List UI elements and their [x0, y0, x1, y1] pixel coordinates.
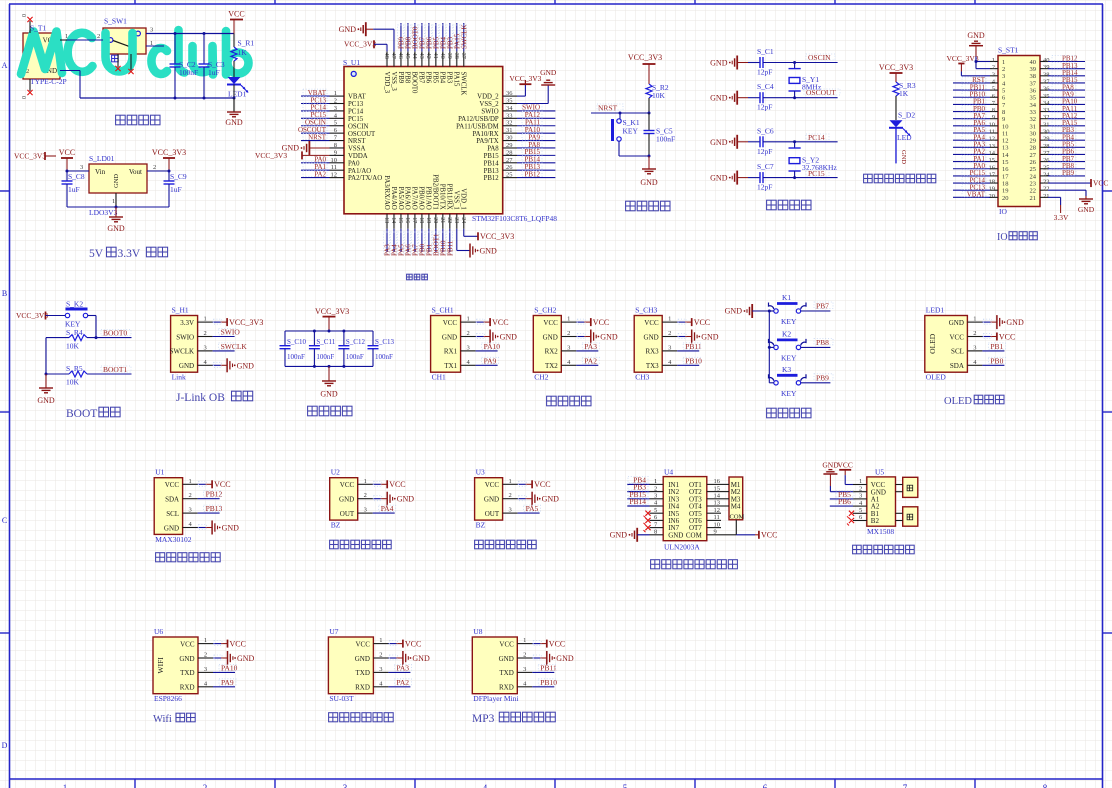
svg-text:S_R5: S_R5 — [66, 364, 83, 373]
designator U4 — [664, 468, 673, 477]
svg-text:29: 29 — [1043, 136, 1050, 143]
IC U5 MX1508 body — [867, 477, 896, 526]
S_ST1 pin 20 — [953, 191, 998, 200]
svg-text:PB8: PB8 — [404, 72, 411, 84]
MCU pin 19 — [425, 214, 434, 256]
label DFPlayer Mini — [473, 694, 518, 703]
svg-text:17: 17 — [1002, 173, 1009, 180]
capacitor S_C3 — [199, 34, 225, 99]
svg-text:OSCOUT: OSCOUT — [806, 88, 836, 97]
U1 pin 4 GND — [183, 521, 240, 535]
svg-text:VCC: VCC — [228, 10, 244, 19]
crystal S_Y2 — [789, 142, 838, 178]
designator U1 — [155, 468, 164, 477]
power VCC_3V3 header — [947, 54, 991, 76]
svg-text:GND: GND — [640, 178, 658, 187]
S_CH3 pin 1 VCC — [662, 316, 710, 327]
module U3 body — [475, 478, 503, 520]
connector S_T1 TYPE-C-2P body — [23, 33, 60, 79]
U5 pin 4 — [853, 500, 867, 507]
svg-text:VCC: VCC — [405, 639, 421, 648]
wire boot bus — [45, 338, 48, 376]
svg-text:VCC_3V3: VCC_3V3 — [14, 152, 46, 161]
svg-text:22: 22 — [1043, 186, 1050, 193]
svg-text:15: 15 — [989, 157, 996, 164]
label MAX30102 — [155, 535, 192, 544]
svg-text:23: 23 — [1030, 180, 1037, 187]
svg-text:U4: U4 — [664, 468, 673, 477]
svg-text:11: 11 — [1002, 130, 1008, 137]
capacitor S_C6 — [710, 126, 796, 156]
label Link — [172, 373, 186, 382]
svg-text:16: 16 — [404, 217, 410, 223]
svg-text:PA0: PA0 — [348, 160, 360, 167]
power VCC_3V3 MCU VDDA — [255, 151, 330, 160]
svg-text:9: 9 — [1002, 116, 1005, 123]
svg-text:VCC_3V3: VCC_3V3 — [229, 318, 263, 327]
svg-text:18: 18 — [1002, 180, 1009, 187]
svg-text:GND: GND — [600, 333, 618, 342]
label PB8 — [801, 338, 833, 348]
S_CH1 pin 3 PA10 — [461, 342, 501, 352]
svg-text:ESP8266: ESP8266 — [154, 694, 182, 703]
S_ST1 pin 30 — [1040, 126, 1085, 135]
ground filter — [320, 366, 338, 398]
svg-text:TYPE-C-2P: TYPE-C-2P — [30, 77, 67, 86]
svg-text:15: 15 — [714, 485, 721, 492]
svg-text:PB8: PB8 — [816, 338, 829, 347]
svg-text:GND: GND — [320, 390, 338, 399]
capacitor S_C7 — [710, 162, 796, 192]
MCU pin 35 — [503, 98, 517, 105]
module S_H1 body — [170, 316, 198, 373]
MCU pin 42 — [425, 23, 434, 67]
svg-text:SCL: SCL — [166, 510, 179, 518]
S_ST1 pin 1 — [990, 57, 998, 64]
MCU pin 5 — [301, 119, 344, 127]
svg-text:28: 28 — [1043, 143, 1050, 150]
U1 pin 2 PB12 — [183, 490, 223, 500]
svg-text:S_H1: S_H1 — [172, 306, 189, 315]
svg-text:24: 24 — [460, 217, 466, 223]
U4 pin 11 — [707, 514, 721, 521]
svg-text:1: 1 — [859, 478, 862, 485]
S_ST1 pin 16 — [953, 162, 998, 171]
svg-text:2: 2 — [567, 330, 570, 337]
svg-text:RXD: RXD — [499, 684, 514, 692]
caption IR module 2 — [475, 540, 537, 549]
wire OSCIN — [795, 62, 838, 64]
caption key circuit — [767, 408, 811, 418]
svg-text:S_R1: S_R1 — [238, 39, 255, 48]
svg-text:BOOT0: BOOT0 — [411, 72, 418, 95]
svg-text:11: 11 — [331, 164, 337, 171]
svg-text:S_C7: S_C7 — [757, 162, 774, 171]
module U7 body — [328, 637, 373, 694]
svg-text:44: 44 — [411, 53, 417, 59]
MCU pin 25 — [503, 170, 556, 178]
svg-text:36: 36 — [506, 90, 513, 97]
svg-text:34: 34 — [506, 105, 513, 112]
U3 pin 3 PA5 — [503, 504, 541, 513]
svg-text:45: 45 — [404, 53, 410, 59]
svg-text:PB7: PB7 — [418, 72, 425, 84]
svg-text:GND: GND — [107, 224, 125, 233]
svg-text:PA1/AO: PA1/AO — [348, 168, 371, 175]
MCU pin 32 — [503, 119, 556, 127]
S_ST1 pin 25 — [1040, 162, 1085, 171]
svg-text:VCC_3V3: VCC_3V3 — [947, 54, 979, 63]
svg-text:GND: GND — [484, 496, 499, 504]
MCU pin 21 — [439, 214, 448, 256]
svg-text:LDO3V3: LDO3V3 — [89, 208, 118, 217]
power VCC_3V3 MCU VDD_3 — [344, 40, 387, 52]
svg-text:5: 5 — [654, 507, 657, 514]
svg-text:2: 2 — [508, 492, 511, 499]
svg-text:S_CH2: S_CH2 — [534, 306, 556, 315]
svg-text:Vin: Vin — [95, 168, 106, 176]
MCU pin 41 — [432, 23, 441, 67]
svg-text:VCC_3V3: VCC_3V3 — [152, 148, 186, 157]
svg-text:GND: GND — [543, 333, 558, 341]
U4 pin 4 — [627, 497, 663, 507]
module U1 body — [154, 478, 182, 535]
svg-text:GND: GND — [164, 524, 179, 532]
svg-text:PB13: PB13 — [484, 168, 500, 175]
svg-text:S_LD01: S_LD01 — [89, 154, 115, 163]
svg-text:S_SW1: S_SW1 — [104, 17, 127, 26]
S_H1 pin 2 SWIO — [198, 328, 241, 338]
svg-text:GND: GND — [949, 319, 964, 327]
svg-text:PB9: PB9 — [1062, 169, 1075, 177]
svg-text:29: 29 — [506, 142, 513, 149]
MCU pin 24 — [460, 214, 466, 229]
svg-text:32: 32 — [1043, 114, 1050, 121]
svg-text:21: 21 — [1030, 195, 1037, 202]
power VCC_3V3 reset — [628, 53, 662, 84]
svg-text:2: 2 — [973, 330, 976, 337]
svg-text:3.3V: 3.3V — [180, 319, 194, 327]
svg-text:IO: IO — [997, 232, 1008, 243]
module S_CH2 body — [533, 316, 561, 373]
S_CH1 pin 4 PA9 — [461, 356, 499, 366]
caption IO expansion — [997, 232, 1037, 243]
svg-text:VCC: VCC — [214, 480, 230, 489]
svg-text:20: 20 — [1002, 195, 1009, 202]
svg-text:9: 9 — [992, 114, 995, 121]
svg-text:U7: U7 — [329, 627, 338, 636]
svg-text:6: 6 — [763, 783, 768, 788]
svg-text:VCC_3V3: VCC_3V3 — [344, 40, 376, 49]
S_ST1 pin 17 — [953, 169, 998, 178]
svg-text:GND: GND — [499, 655, 514, 663]
svg-text:1uF: 1uF — [170, 185, 182, 194]
MCU pin 44 — [411, 23, 420, 67]
svg-text:NRST: NRST — [598, 104, 618, 113]
svg-text:1: 1 — [1002, 59, 1005, 66]
U5 pin 1 — [853, 478, 867, 485]
svg-text:3: 3 — [567, 344, 570, 351]
S_ST1 pin 40 — [1040, 55, 1085, 64]
svg-text:5: 5 — [859, 507, 862, 514]
designator S_CH3 — [635, 306, 657, 315]
svg-text:11: 11 — [989, 129, 995, 136]
S_ST1 pin 34 — [1040, 98, 1085, 107]
svg-text:PB12: PB12 — [524, 170, 540, 178]
svg-text:5: 5 — [1002, 88, 1005, 95]
U2 pin 3 PA4 — [358, 504, 396, 513]
svg-text:KEY: KEY — [781, 353, 797, 362]
svg-text:23: 23 — [453, 217, 459, 223]
MCU pin 31 — [503, 126, 556, 134]
svg-text:S_C1: S_C1 — [757, 47, 774, 56]
svg-text:SWIO: SWIO — [176, 333, 194, 341]
S_ST1 pin 19 — [953, 183, 998, 192]
svg-text:5: 5 — [623, 783, 628, 788]
U7 pin 1 VCC — [373, 637, 421, 648]
MCU pin 18 — [418, 214, 427, 256]
svg-text:VCC_3V3: VCC_3V3 — [879, 63, 913, 72]
svg-text:1K: 1K — [238, 48, 248, 57]
ground MCU VSS_3 — [339, 22, 394, 51]
svg-text:14: 14 — [989, 150, 996, 157]
svg-text:18: 18 — [989, 179, 996, 186]
svg-text:OUT: OUT — [340, 510, 355, 518]
caption J-Link OB — [176, 391, 253, 404]
svg-text:VCC_3V3: VCC_3V3 — [315, 307, 349, 316]
svg-text:VCC: VCC — [837, 461, 852, 470]
MCU pin 3 — [301, 104, 344, 112]
svg-text:35: 35 — [506, 98, 513, 105]
svg-text:S_C4: S_C4 — [757, 82, 774, 91]
label NRST — [597, 104, 623, 113]
S_CH2 pin 3 PA3 — [561, 342, 599, 352]
svg-text:GND: GND — [339, 496, 354, 504]
svg-text:GND: GND — [556, 654, 574, 663]
S_ST1 pin 3 — [990, 71, 998, 78]
svg-text:35: 35 — [1043, 93, 1050, 100]
capacitor S_C12 — [338, 331, 365, 366]
MCU pin 4 — [301, 111, 344, 119]
svg-text:43: 43 — [418, 53, 424, 59]
svg-text:3: 3 — [466, 344, 469, 351]
svg-text:GND: GND — [237, 654, 255, 663]
svg-text:19: 19 — [425, 217, 431, 223]
svg-text:VCC_3V3: VCC_3V3 — [480, 232, 514, 241]
caption serial circuit — [547, 396, 591, 406]
svg-text:12pF: 12pF — [757, 68, 772, 77]
svg-text:BOOT: BOOT — [66, 408, 97, 420]
module S_CH3 body — [634, 316, 662, 373]
svg-text:PA15: PA15 — [453, 72, 460, 87]
svg-text:13: 13 — [989, 143, 996, 150]
svg-text:2: 2 — [364, 492, 367, 499]
svg-text:GND: GND — [1006, 318, 1024, 327]
label CH3 — [635, 373, 649, 382]
S_H1 pin 4 GND — [198, 358, 255, 372]
designator U7 — [329, 627, 338, 636]
svg-text:PA10: PA10 — [484, 342, 501, 351]
caption reset circuit — [626, 201, 670, 211]
U5 pin 5 — [847, 507, 867, 518]
svg-text:U6: U6 — [154, 627, 163, 636]
svg-text:100nF: 100nF — [656, 135, 675, 144]
svg-text:12pF: 12pF — [757, 147, 772, 156]
svg-text:VSS_2: VSS_2 — [479, 101, 499, 108]
S_ST1 pin 12 — [953, 133, 998, 142]
MCU pin 1 — [301, 89, 344, 97]
wire NRST — [591, 112, 651, 115]
svg-text:10: 10 — [331, 157, 338, 164]
label SW1 switch char — [112, 55, 119, 62]
svg-text:2: 2 — [97, 33, 100, 40]
svg-text:KEY: KEY — [781, 317, 797, 326]
caption BOOT circuit — [66, 407, 120, 420]
svg-text:VCC: VCC — [355, 640, 370, 648]
wire SW1 pin1 stub — [146, 40, 164, 47]
svg-text:VCC: VCC — [694, 318, 710, 327]
S_ST1 pin 27 — [1040, 148, 1085, 157]
svg-text:GND: GND — [500, 333, 518, 342]
label PB9 — [801, 373, 833, 383]
S_ST1 pin 31 — [1040, 119, 1085, 128]
svg-text:GND: GND — [237, 361, 255, 370]
svg-text:2: 2 — [203, 783, 208, 788]
module U2 body — [330, 478, 358, 520]
svg-text:PB12: PB12 — [484, 175, 500, 182]
svg-text:PB15: PB15 — [484, 153, 500, 160]
svg-text:100nF: 100nF — [346, 353, 364, 361]
module S_CH1 body — [431, 316, 461, 373]
svg-text:DFPlayer Mini: DFPlayer Mini — [473, 694, 518, 703]
capacitor S_C5 — [644, 113, 676, 158]
svg-text:GND: GND — [480, 247, 498, 256]
svg-text:PA6/AO: PA6/AO — [404, 187, 411, 210]
caption wifi module — [153, 713, 195, 725]
svg-text:46: 46 — [397, 53, 403, 59]
capacitor S_C4 — [710, 82, 796, 112]
U4 pin 15 — [707, 485, 721, 492]
label OLED — [926, 373, 947, 382]
svg-text:17: 17 — [411, 217, 417, 223]
MCU pin 17 — [411, 214, 420, 256]
svg-text:RX1: RX1 — [444, 348, 458, 356]
svg-text:VCC: VCC — [534, 480, 550, 489]
svg-text:VDD_2: VDD_2 — [477, 94, 499, 101]
svg-text:VCC: VCC — [492, 318, 508, 327]
svg-text:12: 12 — [989, 136, 996, 143]
svg-text:TXD: TXD — [356, 669, 370, 677]
svg-text:TXD: TXD — [499, 669, 513, 677]
svg-text:VCC_3V3: VCC_3V3 — [255, 151, 287, 160]
svg-text:GND: GND — [225, 118, 243, 127]
svg-text:STM32F103C8T6_LQFP48: STM32F103C8T6_LQFP48 — [472, 214, 557, 223]
svg-text:1: 1 — [65, 33, 68, 40]
svg-text:VSSA: VSSA — [348, 146, 365, 153]
caption dc motor circuit — [853, 545, 915, 554]
svg-text:VBAT: VBAT — [348, 94, 367, 101]
svg-text:COM: COM — [686, 531, 703, 539]
svg-text:41: 41 — [432, 53, 438, 59]
svg-text:20: 20 — [989, 193, 996, 200]
button S_K2 — [65, 300, 88, 329]
S_ST1 pin 28 — [1040, 141, 1085, 150]
MCU pin 43 — [418, 23, 427, 67]
ground header right — [1048, 190, 1095, 214]
label LDO3V3 — [89, 208, 118, 217]
svg-text:1: 1 — [63, 783, 68, 788]
wire T1 pin1 to SW1 — [60, 33, 103, 40]
wire keys bus — [768, 310, 771, 383]
svg-text:GND: GND — [37, 396, 55, 405]
wire PC15 — [795, 177, 838, 179]
svg-text:3: 3 — [973, 344, 976, 351]
svg-text:2: 2 — [523, 652, 526, 659]
label TYPE-C-2P — [30, 77, 67, 86]
svg-text:M4: M4 — [731, 503, 741, 511]
wire ldo pin3 — [66, 164, 90, 173]
svg-text:3: 3 — [80, 164, 83, 171]
svg-text:GND: GND — [644, 333, 659, 341]
caption power circuit — [116, 115, 160, 125]
svg-text:3: 3 — [150, 27, 153, 34]
svg-text:PB7: PB7 — [816, 302, 829, 311]
svg-text:VCC: VCC — [549, 639, 565, 648]
svg-text:S_K2: S_K2 — [66, 300, 83, 309]
button K1 — [769, 293, 807, 326]
svg-text:PB10: PB10 — [685, 356, 702, 365]
svg-text:PA7/AO: PA7/AO — [411, 187, 418, 210]
MCU pin 39 — [446, 23, 455, 67]
svg-text:2: 2 — [188, 492, 191, 499]
U6 pin 1 VCC — [198, 637, 246, 648]
svg-text:PC15: PC15 — [808, 169, 825, 178]
svg-text:39: 39 — [1030, 66, 1037, 73]
svg-text:VCC: VCC — [180, 640, 195, 648]
svg-text:PC13: PC13 — [348, 101, 364, 108]
svg-text:VCC: VCC — [761, 531, 777, 540]
U4 pin 7 — [644, 521, 664, 532]
svg-text:VCC_3V3: VCC_3V3 — [16, 311, 48, 320]
designator U3 — [476, 468, 485, 477]
svg-text:PB9: PB9 — [816, 373, 829, 382]
U4 pin 14 — [707, 493, 721, 500]
designator U6 — [154, 627, 163, 636]
svg-text:10: 10 — [1002, 123, 1009, 130]
svg-text:1: 1 — [668, 316, 671, 323]
svg-text:S_C10: S_C10 — [287, 338, 307, 346]
wire OSCOUT — [795, 97, 838, 99]
svg-text:PB11: PB11 — [685, 342, 702, 351]
button K2 — [769, 329, 807, 362]
S_ST1 pin 21 — [1040, 193, 1050, 200]
svg-text:1: 1 — [188, 478, 191, 485]
svg-text:5: 5 — [334, 120, 337, 127]
svg-text:5V: 5V — [89, 248, 104, 260]
svg-text:38: 38 — [1030, 73, 1037, 80]
MCU pin 16 — [404, 214, 413, 256]
svg-text:GND: GND — [710, 174, 728, 183]
U4 pin 1 — [627, 475, 663, 485]
S_ST1 pin 35 — [1040, 90, 1085, 99]
svg-text:WIFI: WIFI — [156, 657, 165, 674]
svg-text:RXD: RXD — [355, 684, 370, 692]
svg-text:1: 1 — [523, 637, 526, 644]
svg-text:OUT: OUT — [485, 510, 500, 518]
label SU-03T — [329, 694, 354, 703]
ground MCU VSSA — [282, 141, 330, 155]
svg-text:3: 3 — [204, 666, 207, 673]
